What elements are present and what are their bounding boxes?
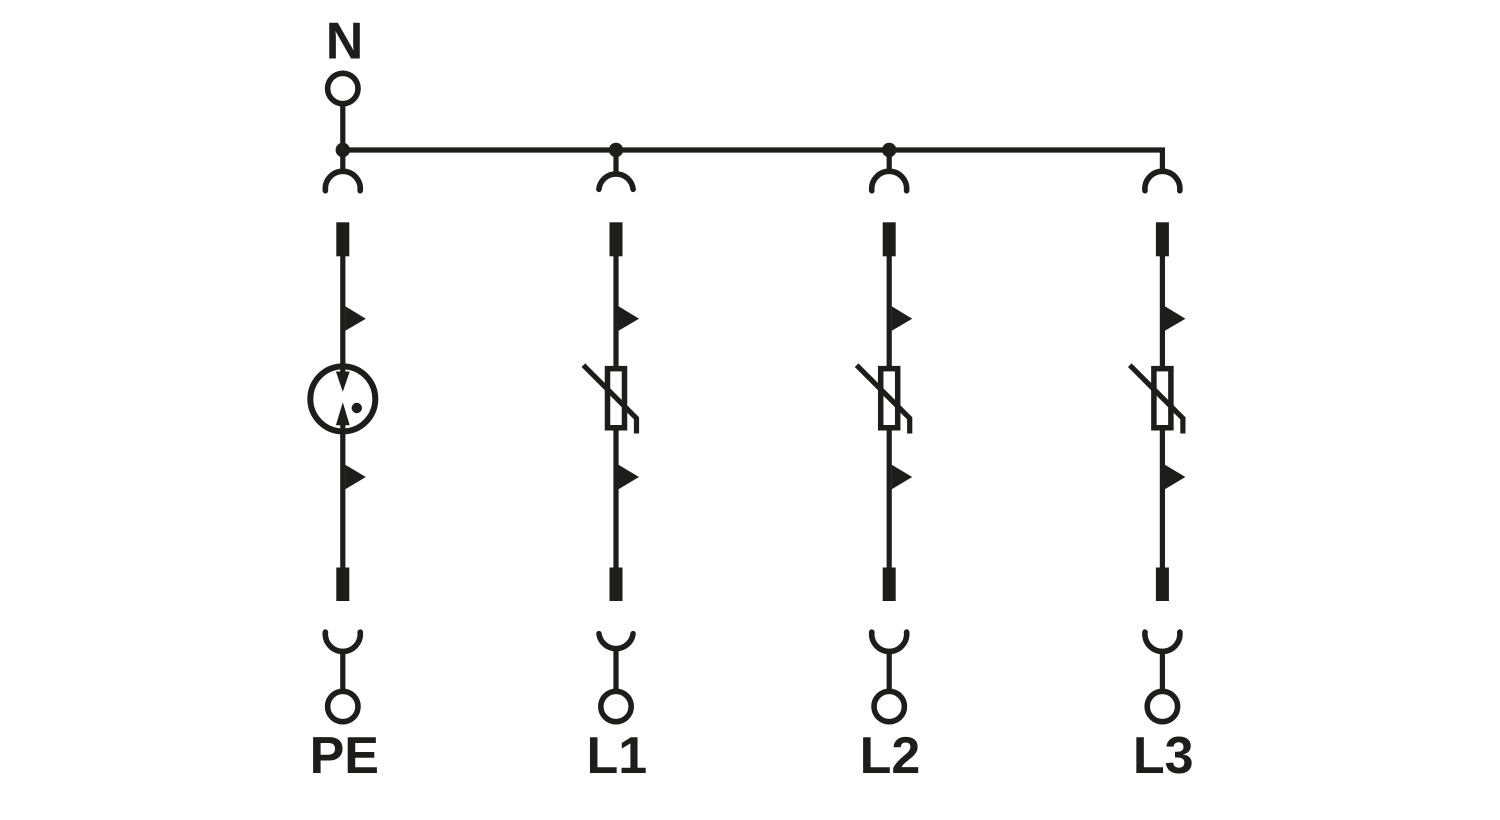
svg-text:PE: PE [310,727,379,785]
svg-text:L1: L1 [586,727,647,785]
svg-text:L3: L3 [1133,727,1194,785]
svg-text:L2: L2 [860,727,921,785]
svg-text:N: N [326,13,364,71]
